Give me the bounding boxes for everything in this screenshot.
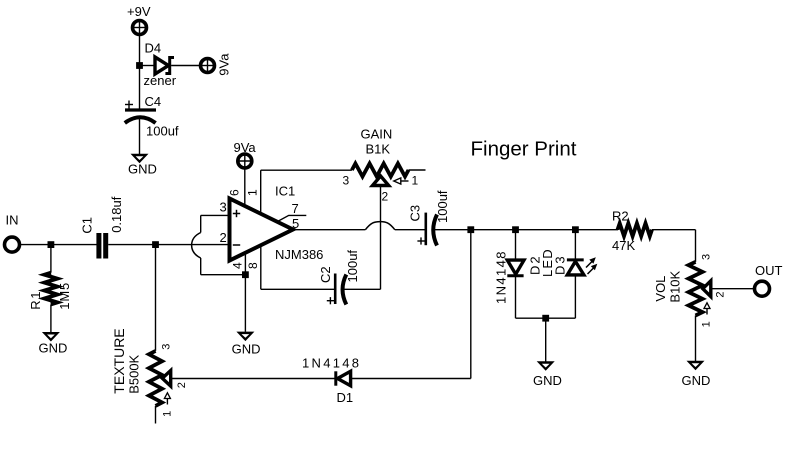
svg-text:GND: GND [533,373,562,388]
svg-text:IC1: IC1 [275,184,295,199]
svg-text:zener: zener [144,73,177,88]
svg-text:100uf: 100uf [435,190,450,223]
svg-text:GND: GND [128,162,157,177]
svg-text:C4: C4 [145,94,162,109]
svg-text:R1: R1 [28,290,43,310]
svg-text:1M5: 1M5 [57,282,72,310]
svg-text:GND: GND [39,341,68,356]
svg-text:GND: GND [682,373,711,388]
svg-text:C3: C3 [408,205,423,222]
svg-text:C1: C1 [80,217,95,234]
svg-text:9Va: 9Va [217,53,232,76]
svg-text:B500K: B500K [127,354,142,393]
svg-text:B1K: B1K [366,142,391,157]
svg-text:1N4148: 1N4148 [493,250,508,304]
svg-text:5: 5 [292,216,299,231]
svg-text:7: 7 [292,201,299,216]
svg-text:6: 6 [227,189,241,196]
svg-text:1: 1 [412,174,419,188]
svg-text:2: 2 [176,382,188,388]
svg-text:3: 3 [161,344,173,350]
svg-text:IN: IN [6,213,19,228]
svg-text:GAIN: GAIN [361,127,393,142]
svg-text:1: 1 [162,411,174,417]
svg-text:OUT: OUT [755,263,783,278]
svg-text:VOL: VOL [653,276,668,302]
svg-text:1: 1 [246,189,260,196]
svg-text:2: 2 [220,230,227,245]
svg-text:Finger Print: Finger Print [471,138,577,161]
svg-text:TEXTURE: TEXTURE [111,328,127,393]
svg-text:9Va: 9Va [234,140,257,155]
svg-text:1: 1 [701,321,713,327]
svg-text:2: 2 [382,190,389,204]
svg-text:3: 3 [343,174,350,188]
svg-text:B10K: B10K [668,270,683,302]
svg-text:GND: GND [232,342,261,357]
svg-text:4: 4 [231,262,245,269]
svg-text:1N4148: 1N4148 [302,356,361,371]
svg-text:0.18uf: 0.18uf [109,196,124,233]
svg-text:D3: D3 [553,254,568,275]
svg-text:D1: D1 [337,390,354,405]
svg-text:100uf: 100uf [345,250,360,283]
svg-text:8: 8 [246,262,260,269]
svg-text:2: 2 [715,291,727,297]
svg-text:+9V: +9V [127,4,151,19]
svg-text:NJM386: NJM386 [275,247,323,262]
svg-text:D4: D4 [145,41,162,56]
svg-text:3: 3 [701,254,713,260]
svg-text:C2: C2 [318,266,333,283]
svg-text:3: 3 [220,200,227,215]
svg-text:100uf: 100uf [146,123,179,138]
